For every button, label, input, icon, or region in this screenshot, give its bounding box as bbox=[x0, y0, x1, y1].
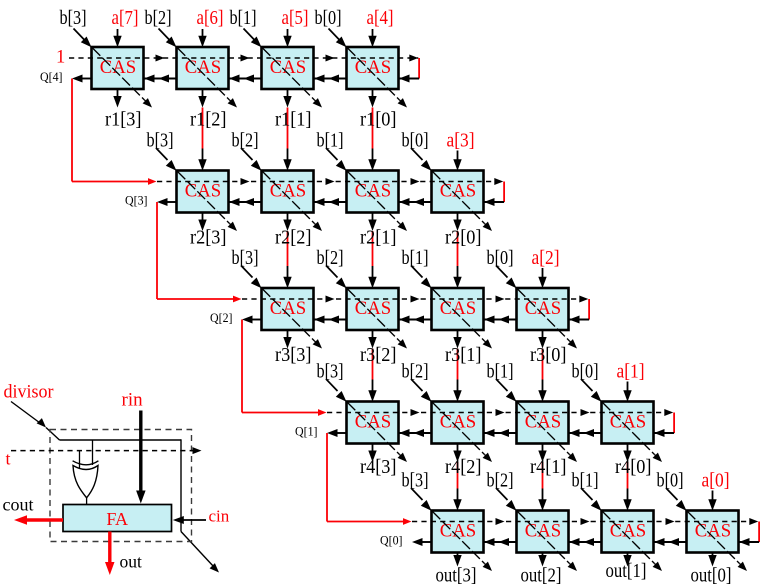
CAS cell row5 col7 bbox=[602, 511, 654, 553]
CAS cell row1 col3 bbox=[262, 47, 314, 89]
svg-text:b[0]: b[0] bbox=[487, 247, 514, 269]
wire output r2[1] arrow row2 bbox=[368, 213, 376, 232]
label r3[2] bbox=[360, 344, 397, 366]
svg-text:r1[1]: r1[1] bbox=[275, 109, 312, 131]
wire carry line row2 gap2 bbox=[314, 198, 347, 206]
svg-text:1: 1 bbox=[56, 48, 65, 68]
svg-text:r4[1]: r4[1] bbox=[530, 456, 567, 478]
svg-text:Q[0]: Q[0] bbox=[380, 534, 403, 548]
label b[0] row4 input bbox=[572, 361, 599, 383]
wire diagonal b-pass row2 col5 bbox=[433, 172, 493, 232]
wire r4[1] to row5 (red segment) bbox=[542, 462, 544, 489]
CAS cell row3 col4 bbox=[347, 288, 399, 330]
label 1 (initial quotient bit, red) bbox=[56, 48, 65, 68]
wire carry-out Q[4] arrow row1 bbox=[72, 75, 92, 83]
CAS cell row3 col6 bbox=[517, 288, 569, 330]
svg-text:a[0]: a[0] bbox=[702, 470, 730, 492]
wire carry-in line row4 rightmost cell bbox=[654, 429, 674, 437]
wire t arrow row3 gap1 bbox=[326, 296, 335, 303]
wire carry line row2 gap1 bbox=[229, 198, 262, 206]
wire r2[1] to row3 (red segment) bbox=[372, 231, 374, 266]
svg-text:a[7]: a[7] bbox=[112, 7, 139, 29]
wire diagonal b-pass row1 col1 bbox=[93, 48, 153, 108]
wire b[2] diagonal into row4 cell2 bbox=[411, 379, 432, 402]
svg-text:r3[3]: r3[3] bbox=[275, 344, 312, 366]
wire t arrow row2 gap3 bbox=[411, 178, 420, 185]
wire r3[0] into row4 cell3 bbox=[538, 380, 546, 402]
CAS cell row3 col5 bbox=[432, 288, 484, 330]
wire carry-out Q[0] arrow row5 bbox=[412, 538, 432, 546]
wire output r1[2] arrow row1 bbox=[198, 89, 206, 108]
label r3[3] bbox=[275, 344, 312, 366]
svg-text:b[1]: b[1] bbox=[317, 130, 344, 152]
label b[0] row1 input bbox=[315, 7, 342, 29]
wire b[1] diagonal into row3 cell3 bbox=[411, 266, 432, 289]
svg-text:r4[3]: r4[3] bbox=[360, 456, 397, 478]
label a[6] row1 input (red) bbox=[197, 7, 224, 29]
svg-text:r4[0]: r4[0] bbox=[615, 456, 652, 478]
svg-text:r1[0]: r1[0] bbox=[360, 109, 397, 131]
wire carry-out Q[1] arrow row4 bbox=[327, 429, 347, 437]
wire output r4[2] arrow row4 bbox=[453, 444, 461, 463]
wire output r4[1] arrow row4 bbox=[538, 444, 546, 463]
label r1[0] bbox=[360, 109, 397, 131]
svg-text:rin: rin bbox=[122, 389, 144, 410]
wire t-line row1 (dashed) bbox=[69, 57, 418, 59]
wire output out[0] arrow bbox=[708, 553, 716, 567]
wire r2[0] into row3 cell3 bbox=[453, 266, 461, 288]
label out[2] bbox=[521, 565, 562, 587]
svg-text:r2[1]: r2[1] bbox=[360, 227, 397, 249]
svg-text:r1[3]: r1[3] bbox=[105, 109, 142, 131]
label out[0] bbox=[691, 565, 732, 587]
label Q[2] bbox=[210, 311, 233, 325]
xor gate U1 bbox=[73, 461, 99, 498]
svg-text:b[1]: b[1] bbox=[487, 361, 514, 383]
wire diagonal b-pass row2 col2 bbox=[178, 172, 238, 232]
wire carry line row4 gap1 bbox=[399, 429, 432, 437]
wire carry line row2 gap3 bbox=[399, 198, 432, 206]
label cin (red) bbox=[209, 507, 230, 526]
svg-text:b[2]: b[2] bbox=[402, 361, 429, 383]
wire red feedback bracket row4 bbox=[673, 413, 675, 434]
svg-text:b[2]: b[2] bbox=[145, 7, 172, 29]
svg-text:Q[1]: Q[1] bbox=[295, 425, 318, 439]
CAS cell row2 col5 bbox=[432, 171, 484, 213]
label r1[1] bbox=[275, 109, 312, 131]
label r4[0] bbox=[615, 456, 652, 478]
wire diagonal b-pass row4 col7 bbox=[603, 403, 663, 463]
wire t arrow row3 gap3 bbox=[496, 296, 505, 303]
label Q[3] bbox=[125, 194, 148, 208]
wire carry line row5 gap3 bbox=[654, 538, 687, 546]
svg-text:Q[2]: Q[2] bbox=[210, 311, 233, 325]
wire carry-in line row3 rightmost cell bbox=[569, 316, 589, 324]
wire r4[2] into row5 cell1 bbox=[453, 489, 461, 511]
wire output r2[0] arrow row2 bbox=[453, 213, 461, 232]
CAS cell row4 col7 bbox=[602, 402, 654, 444]
wire t-line row3 (dashed) bbox=[242, 298, 588, 300]
wire output r3[0] arrow row3 bbox=[538, 330, 546, 349]
label a[4] row1 input (red) bbox=[367, 7, 394, 29]
wire r3[1] to row4 (red segment) bbox=[457, 349, 459, 380]
wire r3[2] to row4 (red segment) bbox=[372, 349, 374, 380]
label Q[0] bbox=[380, 534, 403, 548]
wire b[3] diagonal into row3 cell1 bbox=[241, 266, 262, 289]
wire output r1[3] arrow row1 bbox=[113, 89, 121, 108]
wire diagonal b-pass row2 col4 bbox=[348, 172, 408, 232]
svg-text:b[3]: b[3] bbox=[317, 361, 344, 383]
wire xor output to FA bbox=[86, 498, 88, 505]
svg-text:a[5]: a[5] bbox=[282, 7, 309, 29]
wire a[1] vertical into row4 cell4 bbox=[623, 382, 631, 402]
label r2[1] bbox=[360, 227, 397, 249]
wire red feedback bracket row5 bbox=[758, 522, 760, 543]
svg-text:Q[4]: Q[4] bbox=[40, 70, 63, 84]
CAS cell row2 col3 bbox=[262, 171, 314, 213]
svg-text:b[3]: b[3] bbox=[402, 470, 429, 492]
label b[2] row5 input bbox=[487, 470, 514, 492]
wire b[1] diagonal into row5 cell3 bbox=[581, 488, 602, 511]
CAS cell row5 col5 bbox=[432, 511, 484, 553]
wire r4[1] into row5 cell2 bbox=[538, 489, 546, 511]
svg-text:b[2]: b[2] bbox=[317, 247, 344, 269]
wire b[2] diagonal into row1 cell2 bbox=[159, 29, 177, 48]
wire xor input from t bbox=[79, 451, 81, 469]
svg-text:b[1]: b[1] bbox=[230, 7, 257, 29]
svg-text:a[3]: a[3] bbox=[447, 130, 475, 152]
wire t arrow row1 gap2 bbox=[241, 55, 250, 62]
label r3[1] bbox=[445, 344, 482, 366]
wire red feedback bracket row2 bbox=[503, 182, 505, 203]
wire t arrow row5 gap2 bbox=[581, 518, 590, 525]
wire b[0] diagonal into row5 cell4 bbox=[666, 488, 687, 511]
wire red quotient feedback Q[3] to row3 bbox=[157, 202, 242, 302]
svg-text:a[2]: a[2] bbox=[532, 247, 560, 269]
label out[1] bbox=[606, 560, 647, 582]
svg-text:out[0]: out[0] bbox=[691, 565, 732, 587]
wire output r1[0] arrow row1 bbox=[368, 89, 376, 108]
svg-text:cin: cin bbox=[209, 507, 230, 526]
wire red feedback bracket row1 bbox=[418, 58, 420, 79]
wire out thick red arrow bbox=[105, 532, 115, 576]
label Q[1] bbox=[295, 425, 318, 439]
svg-text:a[4]: a[4] bbox=[367, 7, 394, 29]
svg-text:b[1]: b[1] bbox=[572, 470, 599, 492]
wire red feedback bracket row3 bbox=[588, 299, 590, 320]
label out bbox=[120, 552, 143, 572]
wire b[1] diagonal into row1 cell3 bbox=[244, 29, 262, 48]
wire output r4[3] arrow row4 bbox=[368, 444, 376, 463]
svg-text:out[1]: out[1] bbox=[606, 560, 647, 582]
wire r3[0] to row4 (red segment) bbox=[542, 349, 544, 380]
wire b[1] diagonal into row2 cell3 bbox=[326, 148, 347, 171]
wire t-line row2 (dashed) bbox=[157, 181, 503, 183]
wire carry line row1 gap2 bbox=[229, 75, 262, 83]
wire output r4[0] arrow row4 bbox=[623, 444, 631, 463]
wire r1[2] to row2 (red segment) bbox=[202, 108, 204, 149]
wire r1[2] into row2 cell1 bbox=[198, 149, 206, 171]
wire t arrow row4 gap3 bbox=[581, 409, 590, 416]
svg-text:b[3]: b[3] bbox=[147, 130, 174, 152]
svg-text:a[6]: a[6] bbox=[197, 7, 224, 29]
svg-text:FA: FA bbox=[106, 509, 128, 529]
svg-text:b[0]: b[0] bbox=[315, 7, 342, 29]
label a[3] (red) row2 input bbox=[447, 130, 475, 152]
label b[3] row2 input bbox=[147, 130, 174, 152]
full adder FA bbox=[63, 505, 172, 532]
wire diagonal b-pass row3 col6 bbox=[518, 289, 578, 349]
svg-text:a[1]: a[1] bbox=[617, 361, 645, 383]
wire r2[2] to row3 (red segment) bbox=[287, 231, 289, 266]
wire xor input from divisor rail bbox=[92, 440, 94, 465]
wire diagonal b-pass row3 col3 bbox=[263, 289, 323, 349]
wire diagonal b-pass row4 col4 bbox=[348, 403, 408, 463]
svg-text:b[0]: b[0] bbox=[402, 130, 429, 152]
wire diagonal b-pass row5 col7 bbox=[603, 512, 663, 572]
wire t-line (dashed) through detail cell bbox=[11, 447, 202, 454]
wire b[0] diagonal into row3 cell4 bbox=[496, 266, 517, 289]
wire t arrow row5 gap1 bbox=[496, 518, 505, 525]
wire diagonal b-pass row5 col8 bbox=[688, 512, 748, 572]
label b[2] row1 input bbox=[145, 7, 172, 29]
wire carry line row5 gap2 bbox=[569, 538, 602, 546]
wire t arrow row5 output end bbox=[749, 518, 758, 525]
svg-text:b[2]: b[2] bbox=[487, 470, 514, 492]
wire r4[0] into row5 cell3 bbox=[623, 489, 631, 511]
wire carry line row3 gap1 bbox=[314, 316, 347, 324]
label r4[3] bbox=[360, 456, 397, 478]
wire carry-out Q[2] arrow row3 bbox=[242, 316, 262, 324]
wire diagonal b-pass row1 col2 bbox=[178, 48, 238, 108]
svg-text:b[3]: b[3] bbox=[232, 247, 259, 269]
label a[2] (red) row3 input bbox=[532, 247, 560, 269]
svg-text:r3[0]: r3[0] bbox=[530, 344, 567, 366]
wire divisor output diagonal bbox=[181, 532, 219, 573]
label b[1] row2 input bbox=[317, 130, 344, 152]
wire b[2] diagonal into row5 cell2 bbox=[496, 488, 517, 511]
wire output r1[1] arrow row1 bbox=[283, 89, 291, 108]
label b[3] row3 input bbox=[232, 247, 259, 269]
wire a[2] vertical into row3 cell4 bbox=[538, 268, 546, 288]
wire carry line row5 gap1 bbox=[484, 538, 517, 546]
label r1[3] bbox=[105, 109, 142, 131]
label r4[2] bbox=[445, 456, 482, 478]
wire r1[0] to row2 (red segment) bbox=[372, 108, 374, 149]
svg-text:b[0]: b[0] bbox=[572, 361, 599, 383]
wire r1[0] into row2 cell3 bbox=[368, 149, 376, 171]
label r2[2] bbox=[275, 227, 312, 249]
CAS cell row1 col1 bbox=[92, 47, 144, 89]
svg-text:r3[1]: r3[1] bbox=[445, 344, 482, 366]
wire r2[0] to row3 (red segment) bbox=[457, 231, 459, 266]
wire carry line row4 gap3 bbox=[569, 429, 602, 437]
wire b[2] diagonal into row3 cell2 bbox=[326, 266, 347, 289]
CAS cell row1 col4 bbox=[347, 47, 399, 89]
label r2[3] bbox=[190, 227, 227, 249]
label b[3] row5 input bbox=[402, 470, 429, 492]
wire b[0] diagonal into row1 cell4 bbox=[329, 29, 347, 48]
label a[5] row1 input (red) bbox=[282, 7, 309, 29]
svg-text:b[1]: b[1] bbox=[402, 247, 429, 269]
wire b[3] diagonal into row1 cell1 bbox=[74, 29, 92, 48]
wire diagonal b-pass row5 col5 bbox=[433, 512, 493, 572]
wire r2[1] into row3 cell2 bbox=[368, 266, 376, 288]
label a[7] row1 input (red) bbox=[112, 7, 139, 29]
label r2[0] bbox=[445, 227, 482, 249]
wire t arrow row4 gap2 bbox=[496, 409, 505, 416]
wire output r2[3] arrow row2 bbox=[198, 213, 206, 232]
label cout bbox=[3, 495, 34, 515]
wire divisor rail across cell bbox=[60, 439, 182, 531]
svg-text:r4[2]: r4[2] bbox=[445, 456, 482, 478]
wire diagonal b-pass row4 col5 bbox=[433, 403, 493, 463]
wire output r3[3] arrow row3 bbox=[283, 330, 291, 349]
svg-text:out: out bbox=[120, 552, 143, 572]
label r4[1] bbox=[530, 456, 567, 478]
wire output r2[2] arrow row2 bbox=[283, 213, 291, 232]
wire carry line row1 gap1 bbox=[144, 75, 177, 83]
wire b[3] diagonal into row5 cell1 bbox=[411, 488, 432, 511]
CAS cell row2 col4 bbox=[347, 171, 399, 213]
wire output out[3] arrow bbox=[453, 553, 461, 567]
label b[1] row4 input bbox=[487, 361, 514, 383]
wire t arrow row2 gap2 bbox=[326, 178, 335, 185]
wire diagonal b-pass row3 col5 bbox=[433, 289, 493, 349]
wire r4[2] to row5 (red segment) bbox=[457, 462, 459, 489]
wire t arrow row1 gap1 bbox=[156, 55, 165, 62]
label divisor (red) bbox=[4, 382, 55, 403]
wire a[7] vertical into row1 cell1 bbox=[113, 29, 121, 47]
label b[0] row2 input bbox=[402, 130, 429, 152]
label r1[2] bbox=[190, 109, 227, 131]
wire carry-in line row5 rightmost cell bbox=[739, 538, 759, 546]
svg-text:out[3]: out[3] bbox=[436, 565, 477, 587]
CAS cell row5 col8 bbox=[687, 511, 739, 553]
svg-text:r3[2]: r3[2] bbox=[360, 344, 397, 366]
wire t arrow row2 output end bbox=[494, 178, 503, 185]
wire carry line row1 gap3 bbox=[314, 75, 347, 83]
svg-text:out[2]: out[2] bbox=[521, 565, 562, 587]
label Q[4] bbox=[40, 70, 63, 84]
wire cin arrow into FA bbox=[173, 516, 206, 524]
wire b[0] diagonal into row4 cell4 bbox=[581, 379, 602, 402]
wire diagonal b-pass row1 col4 bbox=[348, 48, 408, 108]
wire t arrow row5 gap3 bbox=[666, 518, 675, 525]
CAS cell row4 col6 bbox=[517, 402, 569, 444]
wire carry line row3 gap3 bbox=[484, 316, 517, 324]
svg-text:b[2]: b[2] bbox=[232, 130, 259, 152]
wire t-line row5 (dashed) bbox=[412, 521, 758, 523]
label b[2] row2 input bbox=[232, 130, 259, 152]
label r3[0] bbox=[530, 344, 567, 366]
wire output r3[1] arrow row3 bbox=[453, 330, 461, 349]
wire r1[1] into row2 cell2 bbox=[283, 149, 291, 171]
label b[1] row3 input bbox=[402, 247, 429, 269]
wire carry-out Q[3] arrow row2 bbox=[157, 198, 177, 206]
wire r3[1] into row4 cell2 bbox=[453, 380, 461, 402]
CAS cell row5 col6 bbox=[517, 511, 569, 553]
wire cout thick red arrow bbox=[14, 515, 63, 525]
wire divisor input diagonal bbox=[11, 402, 60, 441]
wire diagonal b-pass row1 col3 bbox=[263, 48, 323, 108]
wire r2[2] into row3 cell1 bbox=[283, 266, 291, 288]
wire red quotient feedback Q[1] to row5 bbox=[327, 433, 412, 525]
wire b[2] diagonal into row2 cell2 bbox=[241, 148, 262, 171]
svg-text:r2[2]: r2[2] bbox=[275, 227, 312, 249]
wire diagonal b-pass row4 col6 bbox=[518, 403, 578, 463]
wire t arrow row3 gap2 bbox=[411, 296, 420, 303]
svg-text:b[3]: b[3] bbox=[60, 7, 87, 29]
wire t-line row4 (dashed) bbox=[327, 412, 673, 414]
label t (red) bbox=[6, 449, 11, 469]
label a[0] (red) row5 input bbox=[702, 470, 730, 492]
label rin (red) bbox=[122, 389, 144, 410]
wire red quotient feedback Q[2] to row4 bbox=[242, 320, 327, 416]
wire r4[0] to row5 (red segment) bbox=[627, 462, 629, 489]
label b[1] row5 input bbox=[572, 470, 599, 492]
wire t arrow row1 output end bbox=[409, 55, 418, 62]
wire carry-in line row1 rightmost cell bbox=[399, 75, 419, 83]
svg-text:t: t bbox=[6, 449, 11, 469]
svg-text:cout: cout bbox=[3, 495, 34, 515]
wire diagonal b-pass row5 col6 bbox=[518, 512, 578, 572]
wire a[3] vertical into row2 cell4 bbox=[453, 151, 461, 171]
svg-text:r1[2]: r1[2] bbox=[190, 109, 227, 131]
wire output out[1] arrow bbox=[623, 553, 631, 567]
dashed cell boundary box bbox=[50, 430, 192, 542]
wire rin thick arrow into FA bbox=[136, 411, 146, 504]
wire output out[2] arrow bbox=[538, 553, 546, 567]
label b[3] row4 input bbox=[317, 361, 344, 383]
CAS cell row2 col2 bbox=[177, 171, 229, 213]
label b[2] row3 input bbox=[317, 247, 344, 269]
label out[3] bbox=[436, 565, 477, 587]
wire t arrow row2 gap1 bbox=[241, 178, 250, 185]
wire b[3] diagonal into row2 cell1 bbox=[156, 148, 177, 171]
wire a[6] vertical into row1 cell2 bbox=[198, 29, 206, 47]
wire t arrow row4 gap1 bbox=[411, 409, 420, 416]
wire a[4] vertical into row1 cell4 bbox=[368, 29, 376, 47]
wire red quotient feedback Q[4] to row2 bbox=[72, 79, 157, 185]
svg-text:b[0]: b[0] bbox=[657, 470, 684, 492]
wire r1[1] to row2 (red segment) bbox=[287, 108, 289, 149]
wire t arrow row3 output end bbox=[579, 296, 588, 303]
wire b[1] diagonal into row4 cell3 bbox=[496, 379, 517, 402]
wire output r3[2] arrow row3 bbox=[368, 330, 376, 349]
CAS cell row3 col3 bbox=[262, 288, 314, 330]
wire diagonal b-pass row3 col4 bbox=[348, 289, 408, 349]
wire a[5] vertical into row1 cell3 bbox=[283, 29, 291, 47]
CAS cell row4 col5 bbox=[432, 402, 484, 444]
wire b[0] diagonal into row2 cell4 bbox=[411, 148, 432, 171]
label b[2] row4 input bbox=[402, 361, 429, 383]
CAS cell row4 col4 bbox=[347, 402, 399, 444]
wire carry line row4 gap2 bbox=[484, 429, 517, 437]
wire a[0] vertical into row5 cell4 bbox=[708, 491, 716, 511]
wire r3[2] into row4 cell1 bbox=[368, 380, 376, 402]
label b[0] row3 input bbox=[487, 247, 514, 269]
label b[0] row5 input bbox=[657, 470, 684, 492]
label b[3] row1 input bbox=[60, 7, 87, 29]
wire diagonal b-pass row2 col3 bbox=[263, 172, 323, 232]
svg-text:Q[3]: Q[3] bbox=[125, 194, 148, 208]
wire carry line row3 gap2 bbox=[399, 316, 432, 324]
label a[1] (red) row4 input bbox=[617, 361, 645, 383]
label b[1] row1 input bbox=[230, 7, 257, 29]
svg-text:r2[0]: r2[0] bbox=[445, 227, 482, 249]
wire b[3] diagonal into row4 cell1 bbox=[326, 379, 347, 402]
